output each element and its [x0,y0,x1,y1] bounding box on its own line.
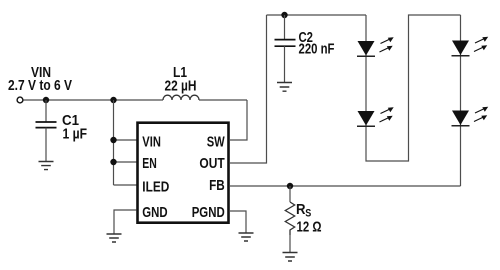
svg-text:PGND: PGND [192,204,225,221]
svg-text:FB: FB [209,177,225,194]
svg-text:220 nF: 220 nF [299,42,335,58]
wire RS bottom lead [289,235,291,253]
svg-text:VIN: VIN [142,133,161,150]
LED D2 [357,107,394,126]
input terminal [17,97,23,103]
LED D3 [452,37,489,56]
wire top rail to LED string 1 [267,14,367,16]
wire GND pin stub [114,210,137,234]
wire OUT riser to top rail [230,15,267,163]
wire EN pin stub [114,161,137,163]
node junction RS [287,183,293,189]
ground below PGND pin [239,233,254,241]
wire C2 top lead [284,15,286,40]
svg-text:S: S [305,208,311,220]
svg-text:SW: SW [207,133,226,150]
wire LED string 2 down to FB rail [460,15,462,186]
wire C1 top lead [45,100,47,122]
wire FB rail [230,185,461,187]
svg-text:22 µH: 22 µH [165,79,197,95]
node junction C1 [43,97,49,103]
svg-text:1 µF: 1 µF [63,127,88,143]
node junction C2 [281,12,287,18]
svg-text:2.7 V to 6 V: 2.7 V to 6 V [8,78,72,94]
node junction VIN pin [110,137,116,143]
svg-text:ILED: ILED [142,178,169,195]
inductor L1 [163,95,199,100]
capacitor C1 [36,122,57,128]
wire input rail VIN [24,99,248,101]
wire ILED pin stub [114,184,137,186]
ground below GND pin [107,234,122,242]
node junction EN pin [110,159,116,165]
wire PGND pin stub [230,211,246,233]
LED D1 [357,37,394,56]
LED D4 [452,107,489,126]
svg-text:OUT: OUT [199,155,224,172]
wire SW drop from L1 to SW pin [230,100,247,140]
ground below C1 [39,162,54,170]
wire riser to VIN EN ILED pins [113,100,115,185]
ground below RS [283,253,298,262]
node junction VIN riser [110,97,116,103]
svg-text:12 Ω: 12 Ω [297,220,322,236]
wire C2 bottom lead [284,46,286,82]
resistor RS zigzag [285,202,294,235]
wire LED string 1 down and U turn up [366,15,461,161]
wire VIN pin stub [114,139,137,141]
svg-text:GND: GND [142,204,167,221]
capacitor C2 [275,40,296,47]
ground below C2 [277,83,292,92]
svg-text:EN: EN [142,155,157,172]
wire C1 bottom lead [45,128,47,162]
wire RS top lead [289,186,291,202]
op-amp U1 IC body [138,123,229,223]
